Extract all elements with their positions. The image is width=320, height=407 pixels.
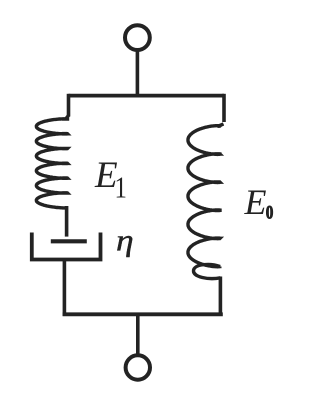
svg-text:η: η [116,224,134,258]
wire top bar [69,94,225,98]
dashpot piston plate [51,239,87,243]
wire piston rod [65,206,69,237]
wire right branch bottom [219,277,223,317]
svg-text:0: 0 [266,202,274,223]
wire bottom bar [63,312,223,316]
svg-text:E: E [244,182,267,222]
spring E1 coil [36,116,68,208]
wire right branch top [222,94,226,122]
terminal circle bottom [126,355,150,379]
wire bottom stem [136,313,140,355]
wire left branch top [67,94,71,117]
svg-text:1: 1 [115,171,127,205]
terminal circle top [125,25,150,50]
dashpot cylinder cup [32,233,101,260]
wire dashpot to bottom bar [63,260,67,317]
wire top stem [136,50,140,97]
spring E0 coil [188,124,224,279]
